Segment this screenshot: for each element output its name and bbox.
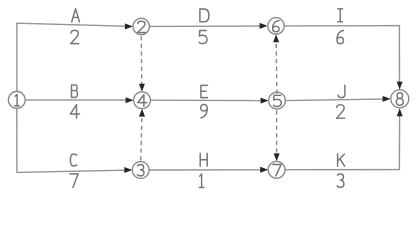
label 1 (duration of H) (199, 174, 204, 188)
node 7 digit (273, 165, 281, 176)
wire: activity E from 4 to 5 (150, 99, 261, 101)
node 1 circle (8, 92, 25, 109)
wire: activity I from 6 right then down to 8 (284, 26, 399, 83)
node 8 digit (396, 93, 403, 105)
label J (338, 85, 345, 97)
label 7 (duration of C) (70, 174, 78, 188)
wire: activity H from 3 to 7 (149, 169, 261, 171)
node 4 digit (138, 95, 147, 106)
dummy arrow 3 to 4 (dashed) (141, 116, 142, 160)
wire: activity K from 7 right then up to 8 (285, 116, 400, 170)
arrowhead into node 7 (top) (274, 153, 280, 161)
label 2 (duration of A) (71, 30, 79, 43)
node 7 circle (268, 161, 285, 178)
node 3 digit (137, 165, 144, 176)
node 3 circle (132, 162, 149, 179)
label 2 (duration of J) (337, 105, 345, 118)
arrowhead into node 8 (left) (383, 96, 391, 102)
wire: activity A path 1-up-right to 2 (17, 23, 126, 91)
dummy arrow 2 to 4 (dashed) (140, 36, 143, 84)
wire: activity B from 1 to 4 (25, 99, 126, 101)
arrowhead into node 2 (125, 23, 133, 29)
label D (200, 9, 209, 22)
node 1 digit (15, 94, 20, 106)
node 4 circle (134, 92, 151, 109)
arrowhead into node 6 (260, 23, 268, 29)
label H (200, 153, 207, 166)
node 8 circle (391, 90, 409, 108)
arrowhead into node 8 (bottom) (397, 108, 403, 116)
arrowhead into node 4 (bottom) (139, 109, 145, 117)
label E (201, 85, 208, 97)
label B (71, 85, 77, 97)
node 5 circle (269, 92, 286, 109)
label I (338, 9, 343, 22)
arrowhead into node 3 (124, 167, 132, 173)
label C (70, 154, 76, 166)
arrowhead into node 6 (bottom) (273, 34, 279, 42)
node 6 circle (268, 18, 284, 34)
dummy arrow 5 to 6 (dashed) (275, 42, 278, 94)
node 2 digit (138, 21, 146, 32)
node 6 digit (273, 21, 280, 32)
wire: activity C path 1-down-right to 3 (17, 108, 125, 172)
label 9 (duration of E) (201, 105, 208, 118)
label 3 (duration of K) (337, 174, 344, 187)
arrowhead into node 5 (261, 98, 269, 104)
arrowhead into node 4 (126, 97, 134, 103)
dummy arrow 5 to 7 (dashed) (276, 110, 278, 154)
arrowhead into node 8 (top) (397, 82, 403, 90)
arrowhead into node 4 (top) (139, 84, 145, 92)
wire: activity D from 2 to 6 (150, 25, 261, 27)
wire: activity J from 5 to 8 (285, 99, 383, 101)
label 4 (duration of B) (70, 105, 79, 119)
label A (72, 9, 80, 22)
node 2 circle (133, 18, 149, 34)
label 5 (duration of D) (199, 30, 207, 43)
label K (338, 154, 345, 166)
arrowhead into node 7 (260, 167, 268, 173)
node 5 digit (274, 95, 282, 106)
label 6 (duration of I) (337, 30, 344, 43)
